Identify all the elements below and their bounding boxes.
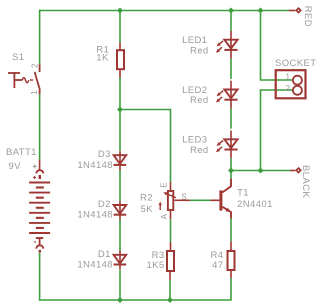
svg-text:Red: Red <box>190 145 209 156</box>
LED3 <box>216 131 238 159</box>
LED2 <box>216 81 238 109</box>
resistor R1 <box>117 43 124 78</box>
wire R2 wiper to T1 base <box>190 199 210 201</box>
svg-text:1N4148: 1N4148 <box>77 259 113 270</box>
wire LED2 to LED3 <box>230 109 232 129</box>
wire top rail <box>40 10 289 12</box>
svg-text:2: 2 <box>286 84 291 93</box>
wire LED1 top <box>230 11 232 31</box>
wire node to BLACK pad <box>231 170 290 172</box>
svg-text:E: E <box>160 182 169 187</box>
svg-text:1N4148: 1N4148 <box>77 210 113 221</box>
wire socket pin1 <box>261 11 293 81</box>
wire D3 to D2 <box>119 170 121 201</box>
diode D2 1N4148 <box>114 201 127 220</box>
wire left rail S1 to BATT1 <box>39 94 41 159</box>
svg-text:Red: Red <box>190 45 209 56</box>
svg-text:2N4401: 2N4401 <box>237 199 273 210</box>
pad RED <box>289 7 302 14</box>
svg-text:S: S <box>181 193 186 202</box>
svg-text:BATT1: BATT1 <box>6 147 37 158</box>
svg-text:T1: T1 <box>237 188 249 199</box>
svg-text:1: 1 <box>286 72 291 81</box>
battery plus pin mark <box>33 164 37 168</box>
node at D1 bottom rail <box>117 297 123 303</box>
wire R3 to bottom rail <box>169 280 171 300</box>
diode D3 1N4148 <box>114 151 127 170</box>
pad BLACK <box>290 167 302 174</box>
socket pin circle 1 <box>293 76 302 85</box>
svg-text:RED: RED <box>302 6 313 27</box>
wire T1 collector stub <box>230 171 232 179</box>
svg-text:D2: D2 <box>98 199 111 210</box>
svg-text:5K: 5K <box>141 204 154 215</box>
svg-text:Red: Red <box>190 95 209 106</box>
svg-text:1K: 1K <box>96 53 109 64</box>
wire R1 to D3 <box>119 78 121 151</box>
wire D2 to D1 <box>119 220 121 251</box>
wire LED3 to node <box>230 158 232 170</box>
node at LED1 top <box>228 8 234 14</box>
transistor T1 2N4401 <box>210 179 231 219</box>
socket SOCKET <box>276 70 306 98</box>
svg-text:BLACK: BLACK <box>300 165 311 198</box>
socket pin circle 2 <box>293 86 302 95</box>
svg-text:2: 2 <box>31 63 40 68</box>
svg-text:SOCKET: SOCKET <box>275 58 316 69</box>
svg-text:D1: D1 <box>98 249 111 260</box>
wire R1 top <box>119 11 121 43</box>
svg-text:1: 1 <box>30 90 39 95</box>
potentiometer R2 5K <box>159 182 191 219</box>
svg-text:1K5: 1K5 <box>146 260 164 271</box>
svg-text:1N4148: 1N4148 <box>77 160 113 171</box>
wire bottom rail <box>39 278 231 300</box>
resistor R4 47 <box>228 241 235 278</box>
wire LED1 to LED2 <box>230 59 232 79</box>
node at socket pin2 column <box>258 168 264 174</box>
node at socket feed top <box>258 8 264 14</box>
wire left rail lower <box>39 253 41 301</box>
wire D1 to bottom rail <box>119 270 121 300</box>
resistor R3 1K5 <box>167 242 174 280</box>
node at R1 bottom branch <box>117 107 123 113</box>
svg-text:S1: S1 <box>12 52 24 63</box>
svg-text:47: 47 <box>212 260 223 271</box>
diode D1 1N4148 <box>114 251 127 270</box>
wire left rail upper <box>39 10 41 65</box>
switch S1 <box>8 64 40 94</box>
wire T1 emitter to R4 <box>230 219 232 242</box>
wire R2 bottom to R3 <box>170 219 172 242</box>
svg-text:R2: R2 <box>140 192 153 203</box>
node at LED3 bottom <box>228 168 234 174</box>
LED1 <box>216 31 238 59</box>
node at R1 top <box>117 8 123 14</box>
wire socket pin2 <box>261 90 293 171</box>
svg-text:D3: D3 <box>98 149 111 160</box>
svg-text:A: A <box>160 213 169 219</box>
node at R3 bottom rail <box>167 297 173 303</box>
svg-text:9V: 9V <box>8 161 21 172</box>
battery BATT1 9V <box>29 160 50 253</box>
wire branch to R2 <box>120 110 171 182</box>
